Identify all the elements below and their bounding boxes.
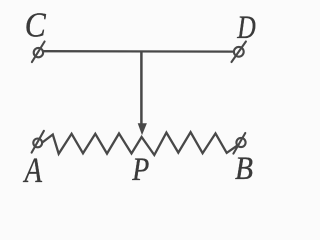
svg-text:C: C [25, 6, 47, 45]
svg-text:A: A [23, 150, 42, 190]
svg-text:P: P [131, 152, 149, 188]
svg-text:D: D [237, 10, 256, 46]
svg-text:B: B [235, 151, 253, 187]
